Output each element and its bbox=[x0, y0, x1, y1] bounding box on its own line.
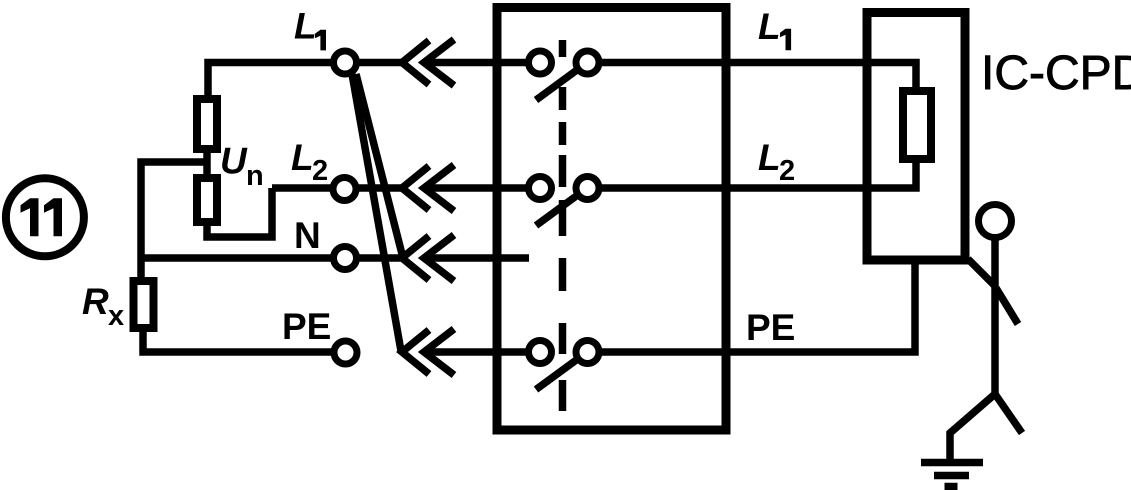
wire L2 chevron to switch bbox=[424, 184, 529, 192]
resistor load inside IC-CPD bbox=[903, 91, 931, 159]
person arm touching IC-CPD bbox=[968, 259, 995, 286]
terminal circle PE bbox=[334, 341, 357, 364]
resistor Rx bbox=[134, 281, 154, 328]
svg-text:L: L bbox=[758, 6, 781, 47]
wire L2 left: riser to terminal bbox=[272, 184, 341, 192]
wire N chevron into box (dead end) bbox=[424, 254, 529, 262]
person torso bbox=[991, 238, 999, 396]
svg-text:L: L bbox=[758, 137, 781, 178]
wire Rx bottom to PE terminal bbox=[143, 332, 341, 352]
wire PE switch to IC-CPD bottom bbox=[599, 260, 915, 352]
plug chevron pair L1 bbox=[402, 41, 429, 85]
plug chevron pair PE bbox=[402, 330, 429, 374]
switch S-PE contact circles bbox=[529, 341, 552, 364]
svg-text:x: x bbox=[108, 300, 124, 332]
svg-text:R: R bbox=[82, 281, 109, 322]
svg-text:n: n bbox=[246, 160, 264, 192]
terminal circle L1 bbox=[334, 51, 357, 74]
wire tap from divider midpoint to left rail bbox=[141, 162, 207, 277]
terminal circle L2 bbox=[333, 178, 356, 201]
plug chevron pair L2 bbox=[402, 166, 429, 210]
wire L1 switch to IC-CPD resistor bbox=[599, 63, 916, 88]
wire N left: rail to terminal bbox=[141, 254, 341, 262]
mechanical link dashed line bbox=[559, 40, 567, 411]
wire from Un lower bottom to L2 riser bbox=[207, 188, 272, 237]
wire L1 chevron to switch bbox=[424, 59, 529, 67]
ground symbol bars bbox=[921, 459, 983, 467]
switch S-L1 blade bbox=[536, 69, 579, 101]
person left leg to earth bbox=[950, 394, 995, 462]
svg-text:PE: PE bbox=[746, 307, 795, 348]
person free arm bbox=[996, 288, 1018, 324]
ganged plug withdrawal line L1 to PE chevron bbox=[352, 74, 401, 351]
svg-text:N: N bbox=[294, 215, 321, 256]
svg-text:U: U bbox=[220, 141, 248, 182]
svg-text:L: L bbox=[291, 137, 314, 178]
svg-text:PE: PE bbox=[282, 306, 331, 347]
wire between Un resistors bbox=[203, 153, 211, 174]
switch S-PE blade bbox=[536, 358, 579, 390]
person right leg bbox=[995, 394, 1022, 433]
ganged plug withdrawal line L1 to N chevron bbox=[356, 74, 403, 258]
svg-text:2: 2 bbox=[779, 155, 795, 187]
wire L2 switch to IC-CPD resistor bbox=[599, 163, 916, 188]
node 11 figure callout circle bbox=[6, 178, 84, 256]
plug chevron pair N bbox=[402, 236, 429, 280]
box switch enclosure bbox=[497, 8, 726, 431]
svg-text:L: L bbox=[294, 6, 317, 47]
label 11 bbox=[21, 198, 39, 236]
resistor Un upper bbox=[197, 99, 217, 149]
wire N terminal to plug chevron bbox=[349, 254, 403, 262]
terminal circle N bbox=[334, 247, 357, 270]
resistor Un lower bbox=[197, 178, 217, 222]
wire L1 terminal to plug chevron bbox=[349, 59, 403, 67]
box IC-CPD enclosure bbox=[867, 13, 965, 261]
switch S-L2 blade bbox=[536, 194, 579, 226]
switch S-L2 contact circles bbox=[529, 177, 552, 200]
wire PE chevron to switch bbox=[424, 348, 529, 356]
svg-text:IC-CPD: IC-CPD bbox=[981, 47, 1131, 100]
person stick figure head bbox=[979, 205, 1012, 238]
wire L2 terminal to plug chevron bbox=[349, 184, 403, 192]
switch S-L1 contact circles bbox=[529, 51, 552, 74]
svg-text:2: 2 bbox=[312, 155, 328, 187]
wire L1 left: terminal to corner and down to Un divider bbox=[208, 63, 341, 96]
